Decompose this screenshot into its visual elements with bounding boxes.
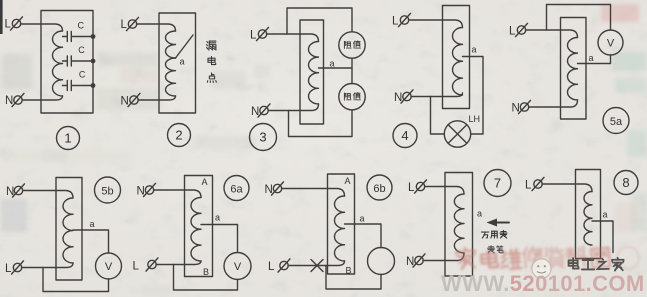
leakage tap diagonal (circuit 2) <box>176 35 194 58</box>
terminal N (circuit 6b) <box>265 182 284 196</box>
svg-text:3: 3 <box>259 130 266 145</box>
svg-text:B: B <box>346 266 352 276</box>
coil upper half (circuit 2) <box>166 31 176 58</box>
text 表笔 (circuit 7) <box>488 246 503 253</box>
svg-text:a: a <box>360 214 365 224</box>
junction dot (circuit 1 cap 1) <box>91 34 96 39</box>
wire L to coil (circuit 5a) <box>526 30 578 38</box>
terminal L (circuit 5b) <box>5 261 24 275</box>
terminal L (circuit 2) <box>121 17 139 31</box>
svg-text:V: V <box>607 38 615 50</box>
svg-text:a: a <box>603 210 608 220</box>
inductor coil (circuit 5b) <box>63 198 73 263</box>
tap wire (circuit 8) <box>592 221 613 253</box>
enclosure box (circuit 7) <box>445 173 473 277</box>
lamp LH (circuit 4) <box>444 114 480 147</box>
terminal N (circuit 5a) <box>512 100 531 114</box>
voltmeter V (circuit 5a) <box>598 30 623 55</box>
tap wire to voltmeter (circuit 6a) <box>201 225 238 253</box>
wire N to coil (circuit 2) <box>138 96 176 100</box>
terminal L (circuit 7) <box>408 180 427 194</box>
label circled 2 <box>168 124 191 147</box>
scan border mark top-left <box>0 0 3 34</box>
junction dot (circuit 1 cap 3) <box>91 83 96 88</box>
watermark smiley logo <box>532 259 551 278</box>
terminal L (circuit 6b) <box>268 259 290 273</box>
svg-text:L: L <box>133 261 140 273</box>
coil lower half (circuit 2) <box>165 58 175 96</box>
svg-text:L: L <box>408 182 415 194</box>
text 漏电点 (circuit 2) <box>207 41 217 82</box>
svg-text:A: A <box>345 176 351 186</box>
svg-text:a: a <box>180 57 185 67</box>
capacitor C2 (circuit 1) <box>63 45 94 66</box>
terminal L (circuit 6a) <box>133 258 159 273</box>
svg-text:a: a <box>330 59 335 69</box>
inductor coil (circuit 6b) <box>334 196 344 261</box>
wire L to coil (circuit 4) <box>409 20 463 28</box>
wire N to coil (circuit 5b) <box>23 191 74 199</box>
inductor coil (circuit 4) <box>453 28 463 96</box>
label circled 1 <box>57 127 80 150</box>
svg-text:C: C <box>78 45 85 55</box>
svg-text:V: V <box>234 261 242 273</box>
wire N to coil (circuit 6a) <box>154 190 202 198</box>
wire N to coil (circuit 7) <box>423 253 464 261</box>
enclosure box (circuit 5b) <box>56 178 82 281</box>
label circled 4 <box>393 124 417 148</box>
label circled 8 <box>614 171 638 195</box>
svg-text:C: C <box>79 70 86 80</box>
inductor coil (circuit 1) <box>52 31 62 96</box>
terminal N (circuit 4) <box>394 90 413 104</box>
enclosure box (circuit 8) <box>576 170 601 259</box>
terminal N (circuit 2) <box>121 93 141 107</box>
inductor coil (circuit 3) <box>309 42 319 104</box>
wire L to coil (circuit 6a) <box>156 261 201 265</box>
outer loop to voltmeter (circuit 5a) <box>547 5 611 31</box>
wire N to coil (circuit 3) <box>269 104 319 111</box>
ohmmeter upper 阻值 (circuit 3) <box>339 32 365 58</box>
wire L to coil (circuit 5b) <box>22 263 74 268</box>
terminal L (circuit 4) <box>392 13 411 27</box>
svg-text:B: B <box>203 267 209 277</box>
terminal L (circuit 1) <box>5 17 23 31</box>
svg-text:a: a <box>477 209 482 219</box>
wire N to coil (circuit 4) <box>411 93 463 97</box>
watermark text 电工之家 <box>569 258 624 271</box>
svg-text:V: V <box>105 261 113 273</box>
svg-text:A: A <box>202 177 208 187</box>
svg-text:L: L <box>509 26 516 38</box>
tap wire a (circuit 3) <box>319 67 353 69</box>
svg-text:a: a <box>472 45 477 55</box>
svg-text:N: N <box>121 96 129 108</box>
svg-text:4: 4 <box>401 128 408 143</box>
inductor coil (circuit 6a) <box>191 198 201 262</box>
inductor coil (circuit 5a) <box>568 38 578 100</box>
break mark X (circuit 6b) <box>311 260 323 272</box>
terminal N (circuit 6a) <box>137 183 156 197</box>
svg-text:L: L <box>121 19 128 31</box>
wire between meters (circuit 3) <box>351 58 353 83</box>
inductor coil (circuit 8) <box>584 192 592 246</box>
voltmeter V (circuit 6a) <box>224 253 251 280</box>
svg-text:WWW.520101.COM: WWW.520101.COM <box>441 271 645 296</box>
wire L to coil (circuit 7) <box>425 187 465 195</box>
svg-text:L: L <box>5 19 12 31</box>
svg-text:LH: LH <box>469 114 481 124</box>
branch wire to lamp (circuit 4) <box>431 97 445 135</box>
svg-text:2: 2 <box>175 128 182 143</box>
terminal N (circuit 1) <box>5 93 24 107</box>
voltmeter V (circuit 5b) <box>96 253 122 279</box>
svg-text:a: a <box>215 213 220 223</box>
capacitor C3 (circuit 1) <box>63 70 94 91</box>
svg-text:6a: 6a <box>230 184 243 196</box>
wire N to coil (circuit 5a) <box>529 100 578 107</box>
circuit 1 enclosure box <box>41 11 93 114</box>
svg-text:L: L <box>250 30 257 42</box>
capacitor C1 (circuit 1) <box>63 21 94 42</box>
svg-text:5b: 5b <box>101 186 113 198</box>
svg-text:L: L <box>5 263 12 275</box>
label circled 7 <box>484 170 511 197</box>
wire N to coil (circuit 6b) <box>282 189 345 197</box>
svg-text:C: C <box>78 21 85 31</box>
enclosure box (circuit 6b) <box>328 174 355 274</box>
svg-text:a: a <box>589 53 594 63</box>
bottom return wire (circuit 3) <box>289 110 353 137</box>
label circled 5b <box>95 177 121 203</box>
wire L to coil (circuit 3) <box>267 34 319 42</box>
wire L to coil (circuit 8) <box>542 184 592 192</box>
terminal N (circuit 7) <box>406 254 425 268</box>
terminal L (circuit 3) <box>250 27 269 41</box>
watermark handwriting 家电维修资料网 <box>456 246 639 270</box>
outer loop top (circuit 3) <box>287 8 352 34</box>
label circled 3 <box>250 124 277 151</box>
enclosure box (circuit 6a) <box>185 176 213 277</box>
wire L to coil (circuit 6b) <box>288 261 345 266</box>
probe arrow (circuit 7) <box>487 219 510 227</box>
terminal L (circuit 8) <box>525 177 544 191</box>
terminal N (circuit 5b) <box>6 184 25 198</box>
svg-text:N: N <box>5 95 13 107</box>
inductor coil (circuit 7) <box>454 194 464 253</box>
label circled 6b <box>367 175 392 200</box>
terminal N (circuit 3) <box>251 104 270 118</box>
tap wire a (circuit 5a) <box>578 55 611 64</box>
junction dot (circuit 1 cap 2) <box>91 59 96 64</box>
svg-text:6b: 6b <box>373 183 385 195</box>
tap wire to voltmeter (circuit 5b) <box>73 230 109 253</box>
tap wire to lamp (circuit 4) <box>463 57 484 135</box>
svg-text:L: L <box>525 180 532 192</box>
label circled 6a <box>224 176 249 201</box>
svg-text:8: 8 <box>622 175 629 190</box>
wire L to coil (circuit 2) <box>137 24 176 31</box>
branch wire to voltmeter bottom (circuit 5b) <box>43 268 109 292</box>
ohmmeter lower 阻值 (circuit 3) <box>339 84 365 110</box>
label circled 5a <box>603 108 629 134</box>
branch wire to meter bottom (circuit 6b) <box>326 266 381 290</box>
inner box (circuit 3) <box>300 20 324 124</box>
svg-text:a: a <box>90 219 95 229</box>
circuit 2 enclosure box <box>159 13 196 113</box>
tap wire to meter (circuit 6b) <box>345 224 382 248</box>
svg-text:5a: 5a <box>610 116 623 128</box>
svg-text:7: 7 <box>494 176 501 191</box>
svg-text:L: L <box>268 261 275 273</box>
svg-text:L: L <box>392 16 399 28</box>
svg-text:1: 1 <box>64 131 71 146</box>
meter circle (circuit 6b) <box>368 248 395 275</box>
wire N to coil (circuit 1) <box>22 96 63 100</box>
circuit 4 enclosure box <box>443 6 470 109</box>
inner box (circuit 5a) <box>561 18 587 120</box>
text 万用表 (circuit 7) <box>481 230 507 238</box>
wire L to coil (circuit 1) <box>21 24 63 31</box>
terminal L (circuit 5a) <box>509 23 528 37</box>
branch wire to voltmeter bottom (circuit 6a) <box>174 265 238 291</box>
